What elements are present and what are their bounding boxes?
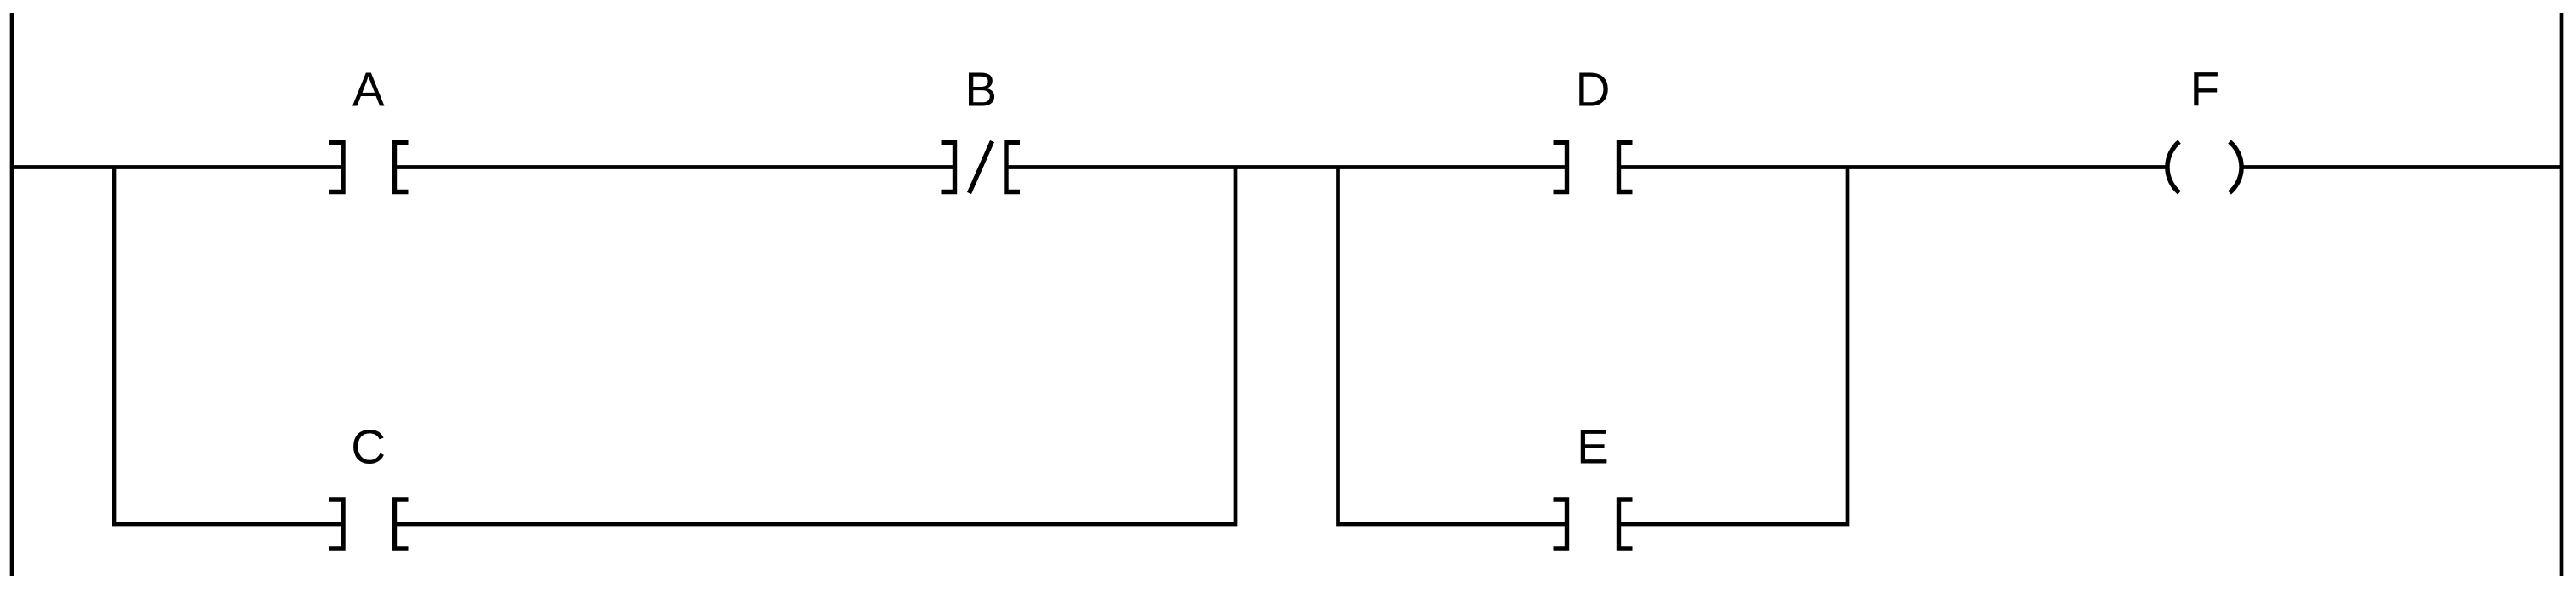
svg-text:A: A <box>352 62 385 116</box>
svg-text:F: F <box>2190 62 2220 116</box>
svg-text:B: B <box>965 62 997 116</box>
svg-text:C: C <box>351 419 386 473</box>
svg-text:D: D <box>1576 62 1611 116</box>
svg-text:E: E <box>1577 419 1609 473</box>
